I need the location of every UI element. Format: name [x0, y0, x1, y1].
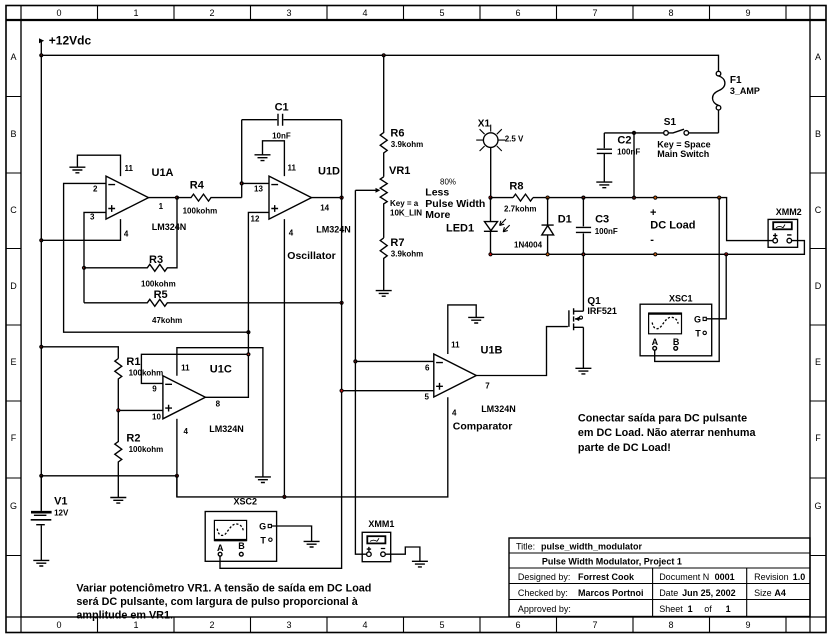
- node rail-U1Apin4 junction: [39, 238, 43, 242]
- wire XSC1 A net: [655, 198, 720, 362]
- frame right strip dividers: [810, 97, 826, 556]
- svg-text:Key = a: Key = a: [390, 199, 419, 208]
- svg-text:80%: 80%: [440, 177, 456, 186]
- svg-text:XMM2: XMM2: [776, 207, 802, 217]
- node rail-R1 junction: [39, 345, 43, 349]
- svg-text:R1: R1: [126, 356, 140, 368]
- svg-text:D1: D1: [558, 214, 572, 226]
- svg-text:será DC pulsante, com largura: será DC pulsante, com largura de pulso p…: [76, 596, 358, 608]
- svg-text:3: 3: [286, 8, 291, 18]
- battery V1: [31, 476, 52, 560]
- svg-text:D: D: [815, 281, 822, 291]
- svg-text:R3: R3: [149, 254, 163, 266]
- wire Q1 drain: [582, 254, 584, 311]
- border frame thick top line: [6, 19, 826, 21]
- wire C1 left to pin13 node: [241, 120, 243, 198]
- node rail-R6 junction: [382, 53, 386, 57]
- node rail-left junction: [39, 53, 43, 57]
- svg-text:A4: A4: [774, 588, 786, 598]
- svg-text:R4: R4: [190, 180, 205, 192]
- svg-text:A: A: [217, 543, 224, 553]
- wire U1C output loop: [205, 354, 248, 397]
- svg-text:G: G: [259, 522, 266, 532]
- svg-text:Pulse Width: Pulse Width: [425, 198, 485, 210]
- capacitor C1: [242, 114, 342, 126]
- node U1C pin4 junction: [175, 474, 179, 478]
- note bottom-left text: [76, 582, 371, 621]
- svg-text:5: 5: [439, 620, 444, 630]
- node D1 bottom junction: [546, 252, 550, 256]
- svg-text:XSC1: XSC1: [669, 294, 693, 304]
- svg-text:G: G: [694, 314, 701, 324]
- svg-text:More: More: [425, 209, 450, 221]
- svg-text:VR1: VR1: [389, 165, 410, 177]
- wire +12V left rail: [40, 55, 42, 511]
- svg-text:LM324N: LM324N: [481, 404, 516, 414]
- svg-text:pulse_width_modulator: pulse_width_modulator: [541, 542, 643, 552]
- svg-text:11: 11: [181, 363, 190, 372]
- svg-text:7: 7: [592, 620, 597, 630]
- ground XSC2 G: [304, 541, 320, 547]
- node U1D pin4 junction: [282, 495, 286, 499]
- svg-text:C2: C2: [617, 135, 631, 147]
- svg-text:Title:: Title:: [516, 542, 535, 552]
- wire U1A pin2 net: [64, 183, 249, 332]
- wire VR1 wiper control net: [355, 190, 366, 554]
- ground R7: [376, 291, 392, 297]
- ground U1A pin11: [69, 167, 85, 173]
- svg-text:+: +: [650, 207, 656, 219]
- svg-text:4: 4: [124, 230, 129, 239]
- svg-text:em DC Load. Não aterrar nenhu: em DC Load. Não aterrar nenhuma: [578, 427, 757, 439]
- svg-text:T: T: [260, 536, 266, 546]
- svg-text:1.0: 1.0: [793, 572, 806, 582]
- svg-text:parte de DC Load!: parte de DC Load!: [578, 442, 671, 454]
- svg-text:11: 11: [125, 164, 134, 173]
- svg-text:XMM1: XMM1: [368, 519, 394, 529]
- title block: [509, 538, 810, 617]
- wire V+ supply run: [41, 397, 448, 497]
- wire U1B output to Q1 gate: [476, 327, 568, 376]
- wire XSC2 G to ground: [271, 526, 311, 541]
- svg-text:B: B: [238, 541, 245, 551]
- svg-text:100kohm: 100kohm: [141, 280, 176, 289]
- svg-text:3: 3: [286, 620, 291, 630]
- svg-text:4: 4: [362, 8, 367, 18]
- node C2 bus junction: [632, 196, 636, 200]
- svg-text:1: 1: [133, 620, 138, 630]
- node R1-R2 junction: [116, 408, 120, 412]
- wire U1C pin9 feedback: [141, 354, 248, 383]
- op-amp U1D: [269, 176, 312, 219]
- wire U1C pin11 to ground: [177, 348, 263, 477]
- svg-text:S1: S1: [664, 117, 677, 128]
- wire U1B pin5: [342, 390, 434, 392]
- svg-text:Revision: Revision: [754, 572, 789, 582]
- node R8-D1 junction: [546, 196, 550, 200]
- node C3 top junction: [581, 196, 585, 200]
- svg-text:100nF: 100nF: [595, 227, 618, 236]
- wire XMM1 minus to ground: [385, 547, 420, 561]
- svg-text:B: B: [673, 337, 680, 347]
- svg-text:4: 4: [184, 427, 189, 436]
- svg-text:G: G: [10, 501, 17, 511]
- svg-text:Document N: Document N: [659, 572, 709, 582]
- svg-text:9: 9: [745, 620, 750, 630]
- node DC Load plus terminal: [653, 196, 657, 200]
- node R5-triwave junction: [340, 301, 344, 305]
- svg-text:10K_LIN: 10K_LIN: [390, 208, 422, 217]
- ground U1D pin11: [255, 155, 271, 161]
- svg-text:3.9kohm: 3.9kohm: [391, 249, 423, 258]
- node R3-R5 junction: [82, 266, 86, 270]
- svg-text:R5: R5: [154, 289, 168, 301]
- node rail-Vplus junction: [39, 474, 43, 478]
- svg-text:C1: C1: [275, 101, 289, 113]
- svg-text:Sheet: Sheet: [659, 604, 683, 614]
- svg-text:LM324N: LM324N: [316, 225, 351, 235]
- svg-text:11: 11: [288, 164, 297, 173]
- svg-text:100nF: 100nF: [617, 148, 640, 157]
- svg-text:B: B: [10, 129, 16, 139]
- svg-text:B: B: [815, 129, 821, 139]
- svg-text:100kohm: 100kohm: [183, 206, 218, 215]
- svg-text:8: 8: [216, 400, 221, 409]
- transistor Q1: [569, 308, 584, 330]
- node C2-S1 junction: [632, 131, 636, 135]
- svg-text:0: 0: [56, 620, 61, 630]
- wire +12V rail top: [41, 41, 718, 72]
- svg-text:V1: V1: [54, 496, 67, 508]
- ground U1B pin11: [468, 317, 484, 323]
- wire X1 to bus: [490, 147, 492, 197]
- svg-text:10: 10: [152, 413, 161, 422]
- svg-text:Conectar saída para DC pulsant: Conectar saída para DC pulsante: [578, 413, 747, 425]
- svg-text:7: 7: [485, 381, 490, 390]
- svg-text:3_AMP: 3_AMP: [730, 86, 760, 96]
- wire U1A pin3 net: [84, 212, 106, 302]
- frame column numbers top: [56, 8, 750, 18]
- wire U1D pin11 to ground: [263, 141, 285, 176]
- node C1-pin13-R4 junction: [240, 181, 244, 185]
- svg-text:5: 5: [425, 393, 430, 402]
- svg-text:F: F: [11, 433, 17, 443]
- svg-text:R8: R8: [509, 181, 523, 193]
- wire U1A output to node: [149, 197, 178, 199]
- svg-text:11: 11: [451, 341, 460, 350]
- node wiper-U1Bpin6 junction: [353, 359, 357, 363]
- svg-text:U1C: U1C: [210, 363, 232, 375]
- frame bottom strip dividers: [98, 617, 787, 633]
- svg-text:C: C: [10, 205, 17, 215]
- node LED1 bus junction: [488, 252, 492, 256]
- wire triangle-wave net: [220, 120, 342, 569]
- ground R2: [110, 498, 126, 504]
- wire XSC1 G net: [707, 254, 726, 318]
- svg-text:9: 9: [745, 8, 750, 18]
- svg-text:1: 1: [726, 604, 731, 614]
- svg-text:+12Vdc: +12Vdc: [49, 33, 92, 47]
- svg-text:X1: X1: [478, 118, 491, 129]
- svg-text:Forrest Cook: Forrest Cook: [578, 572, 635, 582]
- capacitor C3: [576, 198, 591, 255]
- op-amp U1A: [106, 176, 149, 219]
- frame row letters left: [10, 52, 17, 511]
- svg-text:LM324N: LM324N: [152, 222, 187, 232]
- frame top strip dividers: [98, 6, 787, 21]
- svg-text:C: C: [815, 205, 822, 215]
- svg-text:D: D: [10, 281, 17, 291]
- op-amp U1B: [434, 354, 477, 397]
- svg-text:IRF521: IRF521: [587, 306, 617, 316]
- resistor R2: [115, 410, 122, 497]
- svg-text:9: 9: [152, 385, 157, 394]
- svg-text:U1A: U1A: [152, 167, 174, 179]
- svg-text:DC Load: DC Load: [650, 220, 695, 232]
- svg-text:6: 6: [515, 620, 520, 630]
- svg-text:F: F: [815, 433, 821, 443]
- ground U1C pin11: [255, 477, 271, 483]
- node XSC1 G tap junction: [724, 252, 728, 256]
- svg-text:Size: Size: [754, 588, 772, 598]
- ground V1: [33, 560, 49, 566]
- svg-text:Oscillator: Oscillator: [287, 250, 335, 262]
- svg-text:Variar potenciômetro VR1. A t: Variar potenciômetro VR1. A tensão de sa…: [76, 582, 371, 594]
- svg-text:0001: 0001: [715, 572, 735, 582]
- node +12Vdc arrow connector: [39, 38, 44, 43]
- node pin2-U1Dpin12 junction: [246, 330, 250, 334]
- svg-text:LM324N: LM324N: [209, 424, 244, 434]
- resistor R1: [115, 359, 122, 411]
- fuse F1: [713, 71, 725, 133]
- svg-text:T: T: [695, 328, 701, 338]
- wire DC minus bus: [491, 241, 805, 255]
- svg-text:G: G: [814, 501, 821, 511]
- node U1D output junction: [340, 196, 344, 200]
- multimeter XMM2: [768, 219, 798, 247]
- svg-text:U1D: U1D: [318, 166, 340, 178]
- svg-text:10nF: 10nF: [272, 131, 291, 140]
- svg-text:Jun 25, 2002: Jun 25, 2002: [682, 588, 736, 598]
- svg-text:Designed by:: Designed by:: [518, 572, 571, 582]
- wire U1D output: [312, 197, 342, 199]
- ground Q1: [575, 368, 591, 374]
- svg-text:6: 6: [515, 8, 520, 18]
- wire C2 to bus: [633, 133, 635, 198]
- svg-text:amplitude em VR1.: amplitude em VR1.: [76, 609, 173, 621]
- LED LED1: [484, 198, 510, 255]
- svg-text:R2: R2: [126, 433, 140, 445]
- node pin5-triwave junction: [340, 389, 344, 393]
- ground XMM1: [412, 561, 428, 567]
- svg-text:47kohm: 47kohm: [152, 316, 182, 325]
- svg-text:3.9kohm: 3.9kohm: [391, 140, 423, 149]
- svg-text:R6: R6: [390, 128, 404, 140]
- svg-text:Date: Date: [659, 588, 678, 598]
- svg-text:Approved by:: Approved by:: [518, 604, 571, 614]
- capacitor C2: [597, 133, 612, 182]
- svg-text:14: 14: [320, 204, 329, 213]
- wire U1D pin4 supply: [283, 219, 285, 497]
- wire U1A pin11 to ground: [77, 155, 120, 176]
- svg-text:7: 7: [592, 8, 597, 18]
- svg-text:A: A: [652, 337, 659, 347]
- svg-text:E: E: [10, 357, 16, 367]
- wire U1C pin10: [118, 409, 163, 411]
- svg-text:A: A: [10, 52, 16, 62]
- svg-text:Less: Less: [425, 187, 449, 199]
- frame column numbers bottom: [56, 620, 750, 630]
- svg-text:2.5 V: 2.5 V: [505, 135, 524, 144]
- svg-text:U1B: U1B: [481, 345, 503, 357]
- svg-text:13: 13: [254, 185, 263, 194]
- frame row letters right: [814, 52, 821, 511]
- switch S1: [604, 129, 718, 135]
- svg-text:5: 5: [439, 8, 444, 18]
- svg-text:Comparator: Comparator: [453, 420, 513, 432]
- svg-text:Checked by:: Checked by:: [518, 588, 568, 598]
- svg-text:LED1: LED1: [446, 223, 474, 235]
- op-amp U1C: [163, 376, 206, 419]
- svg-text:12V: 12V: [54, 509, 69, 518]
- svg-text:2: 2: [209, 8, 214, 18]
- node XSC1 A tap junction: [717, 196, 721, 200]
- svg-text:E: E: [815, 357, 821, 367]
- resistor R3: [84, 198, 177, 272]
- note right text: [578, 413, 757, 454]
- resistor R6: [380, 55, 387, 177]
- svg-text:Main Switch: Main Switch: [657, 149, 709, 159]
- wiper arrow VR1: [355, 188, 380, 193]
- wire U1D pin12: [248, 212, 269, 354]
- svg-text:2: 2: [93, 185, 98, 194]
- svg-text:1N4004: 1N4004: [514, 241, 543, 250]
- svg-text:-: -: [650, 234, 654, 246]
- oscilloscope XSC1: [640, 304, 712, 356]
- resistor R4: [177, 194, 242, 201]
- svg-text:1: 1: [688, 604, 693, 614]
- svg-text:Key = Space: Key = Space: [657, 139, 710, 149]
- wire U1B pin11 to ground: [448, 305, 476, 354]
- svg-text:3: 3: [90, 213, 95, 222]
- wire Q1 source to ground: [582, 327, 584, 368]
- node C3-Q1 junction: [581, 252, 585, 256]
- potentiometer VR1: [380, 177, 387, 238]
- svg-text:A: A: [815, 52, 821, 62]
- svg-text:1: 1: [133, 8, 138, 18]
- node X1 bus junction: [488, 196, 492, 200]
- svg-text:R7: R7: [390, 237, 404, 249]
- svg-text:Pulse Width Modulator, Project: Pulse Width Modulator, Project 1: [542, 557, 682, 567]
- svg-text:2.7kohm: 2.7kohm: [504, 205, 536, 214]
- svg-text:Marcos Portnoi: Marcos Portnoi: [578, 588, 644, 598]
- svg-text:4: 4: [362, 620, 367, 630]
- wire DC plus bus: [491, 198, 773, 241]
- svg-text:XSC2: XSC2: [234, 497, 258, 507]
- svg-text:6: 6: [425, 363, 430, 372]
- diode D1: [542, 198, 554, 255]
- node DC Load minus terminal: [653, 252, 657, 256]
- wire U1D pin13: [242, 182, 269, 184]
- svg-text:1: 1: [159, 202, 164, 211]
- resistor R7: [380, 238, 387, 290]
- svg-text:of: of: [704, 604, 712, 614]
- svg-text:12: 12: [251, 215, 260, 224]
- svg-text:C3: C3: [595, 214, 609, 226]
- wire U1C pin4 supply: [176, 419, 178, 497]
- oscilloscope XSC2: [205, 512, 276, 562]
- svg-text:F1: F1: [730, 75, 742, 86]
- wire U1B pin6: [355, 360, 433, 362]
- lamp X1: [476, 125, 505, 151]
- svg-text:8: 8: [668, 620, 673, 630]
- resistor R8: [513, 194, 533, 201]
- svg-text:4: 4: [452, 408, 457, 417]
- svg-text:2: 2: [209, 620, 214, 630]
- frame left strip dividers: [6, 97, 21, 556]
- svg-text:0: 0: [56, 8, 61, 18]
- svg-text:4: 4: [289, 229, 294, 238]
- node U1C feedback junction: [246, 352, 250, 356]
- multimeter XMM1: [362, 532, 391, 561]
- wire R1 feed: [41, 347, 118, 359]
- ground C2: [596, 182, 612, 188]
- svg-text:8: 8: [668, 8, 673, 18]
- svg-text:100kohm: 100kohm: [129, 369, 164, 378]
- resistor R5: [84, 299, 342, 306]
- svg-text:100kohm: 100kohm: [129, 445, 164, 454]
- wire U1A pin4 supply: [41, 219, 120, 240]
- node U1A output junction: [175, 196, 179, 200]
